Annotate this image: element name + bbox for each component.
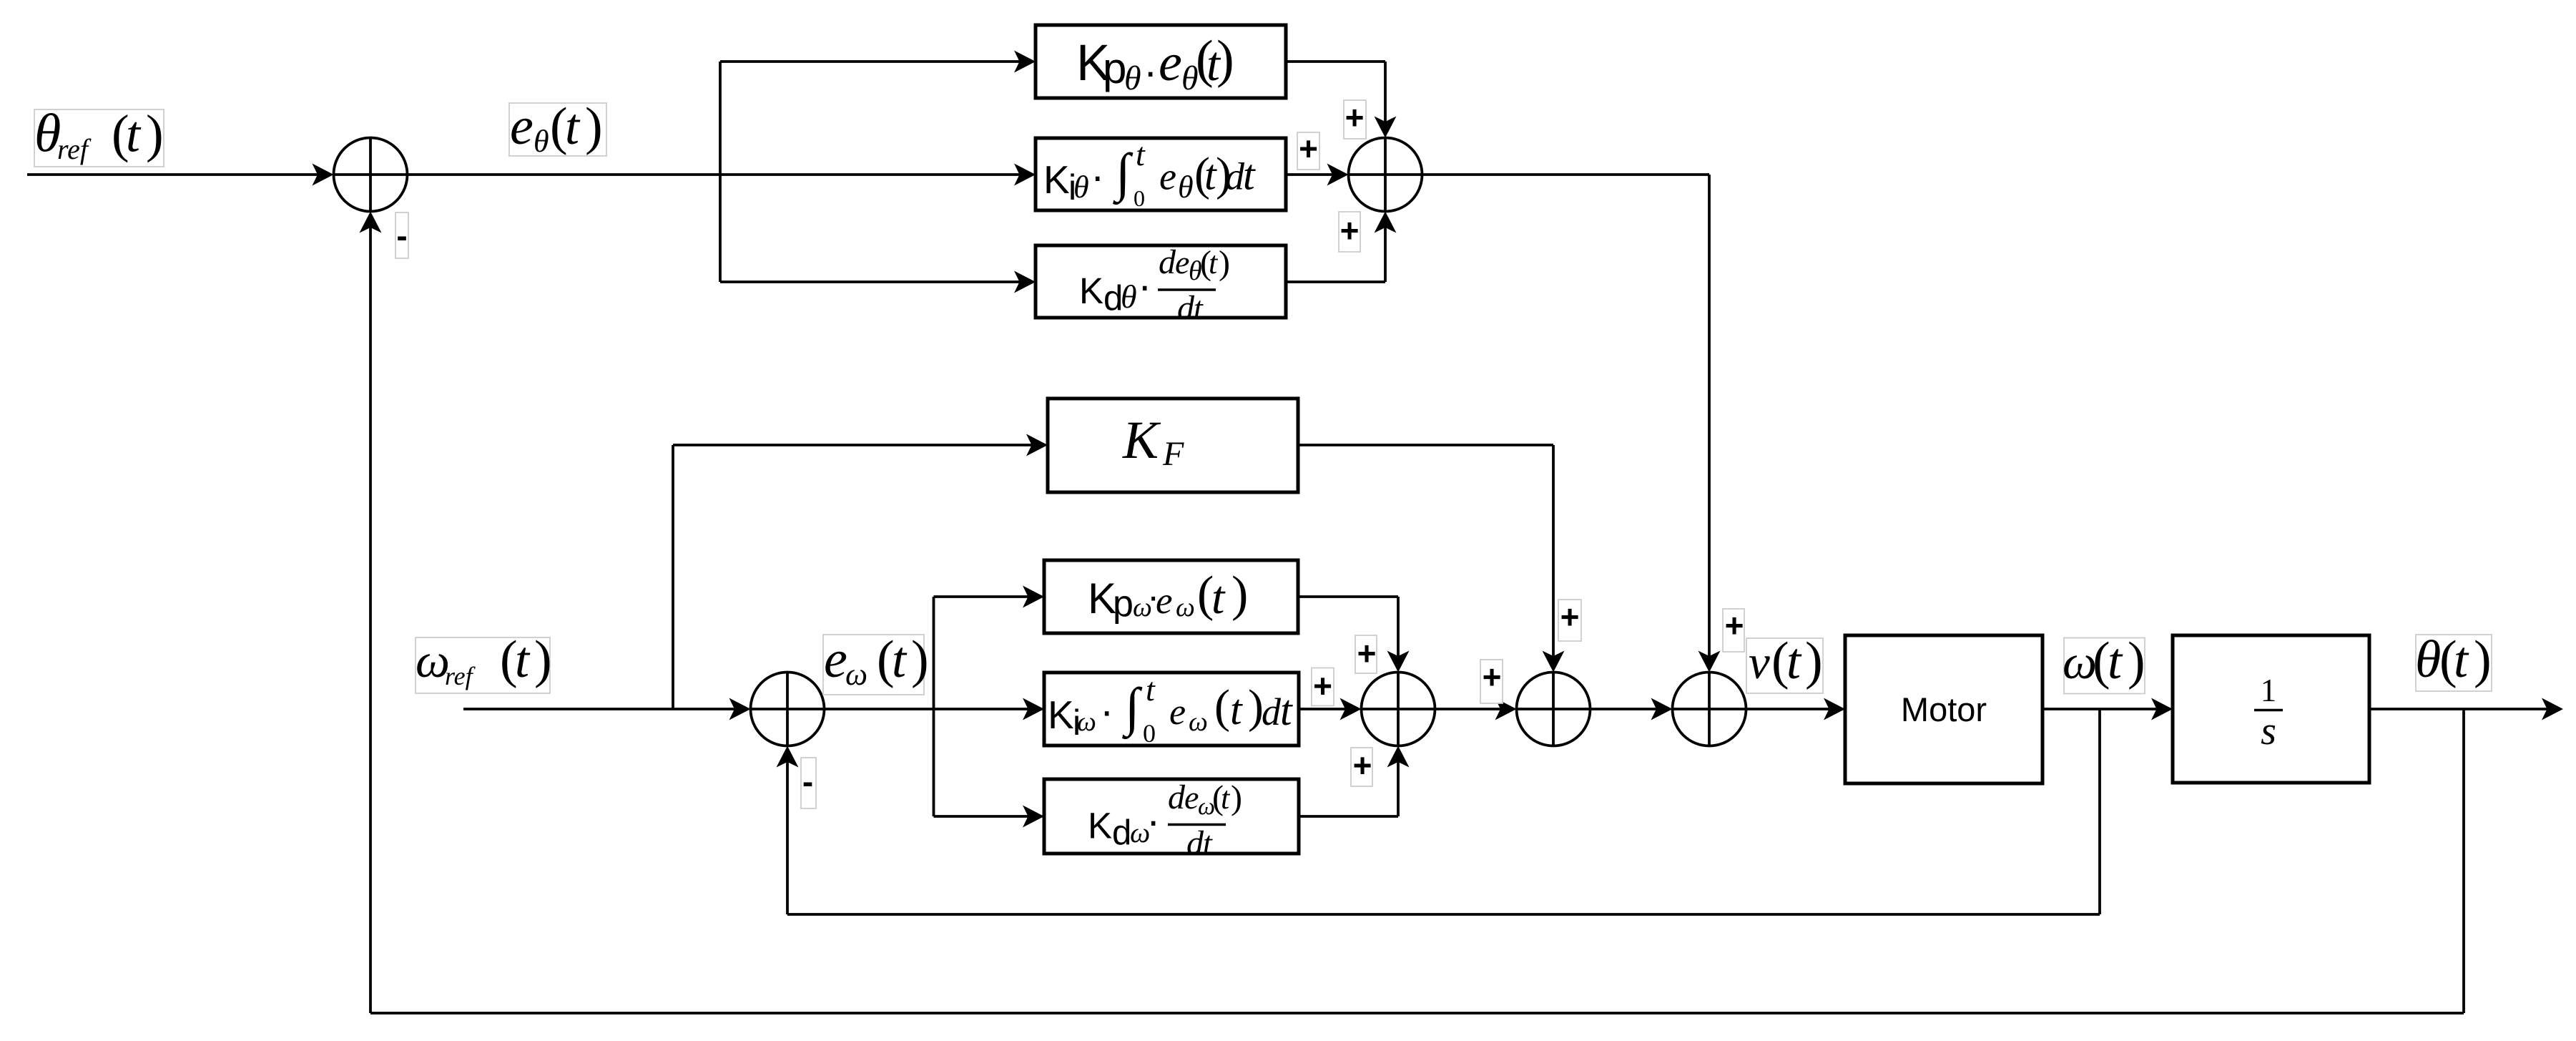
svg-text:): ) [534, 630, 552, 689]
svg-text:t: t [565, 98, 581, 155]
svg-text:e: e [1175, 244, 1189, 280]
svg-text:): ) [2128, 632, 2145, 690]
svg-text:0: 0 [1143, 719, 1156, 748]
svg-text:e: e [1156, 580, 1173, 622]
svg-text:+: + [1299, 130, 1318, 167]
svg-text:d: d [1177, 289, 1195, 327]
svg-text:t: t [1211, 572, 1226, 624]
svg-text:ω: ω [2063, 635, 2097, 689]
svg-text:t: t [1221, 781, 1231, 816]
svg-text:+: + [1345, 99, 1365, 136]
svg-text:e: e [1184, 779, 1199, 816]
svg-text:Motor: Motor [1901, 690, 1987, 728]
svg-text:+: + [1725, 607, 1744, 644]
svg-text:): ) [1219, 244, 1230, 282]
svg-text:·: · [1091, 153, 1104, 200]
svg-text:-: - [802, 763, 813, 800]
svg-text:d: d [1159, 243, 1176, 281]
svg-text:): ) [1216, 30, 1234, 89]
svg-text:t: t [1136, 136, 1146, 172]
svg-text:ω: ω [1189, 707, 1208, 737]
svg-text:v: v [1749, 636, 1770, 689]
svg-text:): ) [911, 630, 929, 689]
svg-text:t: t [1243, 152, 1256, 199]
svg-text:θ: θ [2415, 630, 2441, 689]
svg-text:p: p [1113, 583, 1134, 625]
svg-text:ω: ω [1176, 592, 1195, 622]
svg-text:+: + [1483, 658, 1502, 695]
svg-text:F: F [1162, 435, 1184, 473]
svg-text:t: t [1146, 671, 1156, 708]
svg-text:p: p [1103, 44, 1126, 92]
svg-text:t: t [892, 631, 908, 688]
svg-text:d: d [1262, 690, 1282, 733]
svg-text:e: e [1159, 155, 1176, 198]
svg-text:t: t [1209, 245, 1219, 280]
svg-text:t: t [515, 631, 531, 688]
svg-text:t: t [1786, 632, 1802, 690]
svg-text:): ) [1805, 632, 1823, 690]
svg-text:0: 0 [1134, 185, 1145, 211]
svg-text:·: · [1100, 688, 1114, 735]
svg-text:·: · [1144, 49, 1157, 95]
svg-text:t: t [1203, 825, 1213, 861]
svg-text:K: K [1079, 270, 1103, 311]
svg-text:·: · [1138, 263, 1151, 309]
svg-text:K: K [1122, 411, 1161, 470]
svg-text:t: t [1280, 687, 1293, 734]
svg-text:θ: θ [534, 124, 549, 159]
svg-text:θ: θ [1121, 278, 1137, 315]
svg-text:e: e [1159, 34, 1182, 92]
svg-text:t: t [2108, 632, 2123, 690]
svg-text:+: + [1340, 212, 1360, 249]
svg-text:e: e [824, 630, 847, 689]
svg-text:K: K [1088, 806, 1112, 846]
svg-text:t: t [1230, 686, 1243, 733]
svg-text:t: t [126, 106, 142, 163]
svg-text:): ) [2474, 630, 2492, 689]
svg-text:(: ( [1214, 680, 1230, 733]
svg-text:d: d [1168, 778, 1186, 816]
svg-text:): ) [585, 97, 603, 156]
svg-text:θ: θ [1073, 170, 1089, 205]
svg-text:K: K [1043, 157, 1070, 202]
svg-text:ref: ref [445, 662, 476, 690]
svg-text:): ) [1232, 567, 1248, 622]
svg-text:+: + [1357, 635, 1377, 672]
svg-text:+: + [1560, 598, 1580, 635]
svg-text:d: d [1225, 155, 1245, 198]
svg-text:s: s [2261, 709, 2276, 753]
svg-text:ω: ω [1077, 707, 1096, 737]
svg-text:d: d [1186, 824, 1204, 862]
svg-text:1: 1 [2261, 673, 2277, 708]
svg-text:+: + [1353, 747, 1372, 784]
svg-text:e: e [510, 97, 534, 156]
svg-text:K: K [1048, 693, 1074, 737]
svg-text:): ) [146, 105, 164, 164]
svg-text:): ) [1231, 779, 1242, 817]
svg-text:·: · [1146, 798, 1160, 844]
svg-text:+: + [1313, 668, 1332, 705]
svg-text:-: - [396, 217, 407, 254]
svg-text:e: e [1169, 692, 1186, 733]
svg-text:θ: θ [1124, 59, 1141, 97]
svg-text:ref: ref [57, 133, 92, 165]
svg-text:t: t [1194, 290, 1204, 326]
svg-text:t: t [2454, 631, 2469, 688]
svg-text:θ: θ [1178, 170, 1194, 205]
svg-text:ω: ω [845, 657, 867, 692]
svg-text:d: d [1112, 813, 1131, 852]
